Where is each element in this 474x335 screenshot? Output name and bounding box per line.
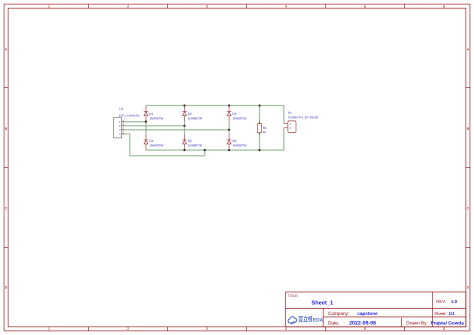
svg-text:2: 2 (127, 4, 129, 8)
diode D3 (227, 105, 231, 121)
U1 pin 2 (122, 125, 124, 127)
wire bottom rail (-) (146, 148, 284, 151)
junction bottom rail / D6 (228, 149, 230, 151)
svg-text:1k: 1k (263, 130, 266, 134)
U1 pin 3 (122, 129, 124, 131)
svg-text:4: 4 (122, 131, 124, 134)
svg-text:A: A (467, 47, 469, 51)
svg-text:Drawn By:: Drawn By: (406, 321, 428, 326)
frame zone ticks top (88, 4, 404, 8)
svg-text:D: D (5, 285, 8, 289)
svg-text:6: 6 (443, 327, 445, 331)
resistor R1 (257, 121, 261, 135)
svg-text:1N4007W: 1N4007W (232, 144, 246, 148)
svg-text:TITLE:: TITLE: (288, 294, 298, 298)
svg-text:CONN-TH_2P-P5.00: CONN-TH_2P-P5.00 (288, 116, 319, 120)
svg-text:P1: P1 (288, 111, 292, 115)
frame zone ticks left (4, 88, 8, 248)
svg-text:D4: D4 (149, 139, 153, 143)
svg-text:U1: U1 (119, 107, 123, 111)
junction top rail / D3 (228, 104, 230, 106)
frame zone ticks right (466, 88, 470, 248)
wire U1 pin3 to column3 (122, 128, 229, 131)
svg-text:1: 1 (48, 4, 50, 8)
junction col2 mid (183, 125, 185, 127)
junction bottom rail / D5 (183, 149, 185, 151)
wire U1 pin2 to column2 (122, 124, 184, 127)
svg-text:4: 4 (119, 133, 121, 136)
svg-text:2: 2 (122, 123, 124, 126)
svg-text:D2: D2 (188, 112, 192, 116)
junction top rail / D2 (183, 104, 185, 106)
svg-text:5: 5 (364, 327, 366, 331)
svg-text:Prajwal Gowda: Prajwal Gowda (431, 321, 464, 326)
svg-text:1/1: 1/1 (448, 311, 454, 316)
svg-text:B: B (5, 127, 7, 131)
title block grid lines (285, 292, 465, 327)
wire column3 mid (227, 122, 230, 134)
svg-text:6: 6 (443, 4, 445, 8)
svg-text:1N4007W: 1N4007W (188, 116, 202, 120)
svg-text:1.0: 1.0 (451, 299, 457, 304)
connector P1 (284, 121, 296, 133)
junction bottom rail / R1 (258, 149, 260, 151)
svg-text:1: 1 (290, 123, 292, 126)
diode D4 (144, 134, 148, 150)
U1 pin 4 (122, 133, 124, 135)
junction col3 mid (228, 129, 230, 131)
junction bottom rail / loop wire (204, 149, 206, 151)
svg-text:D: D (467, 285, 470, 289)
svg-text:2: 2 (119, 125, 121, 128)
svg-text:4: 4 (285, 4, 287, 8)
svg-text:2: 2 (127, 327, 129, 331)
diode D6 (227, 134, 231, 150)
svg-text:Company:: Company: (328, 311, 349, 316)
svg-text:D3: D3 (232, 112, 236, 116)
U1 pin 1 (122, 121, 124, 123)
svg-text:A: A (5, 47, 7, 51)
svg-text:1: 1 (48, 327, 50, 331)
P1 pin number marks 1 2 (290, 123, 292, 130)
connector U1 (114, 118, 125, 138)
wire U1 pin1 to column1 (122, 120, 146, 123)
svg-text:C: C (5, 206, 8, 210)
svg-text:1N4007W: 1N4007W (149, 144, 163, 148)
svg-text:1: 1 (119, 121, 121, 124)
svg-text:Date:: Date: (328, 321, 339, 326)
svg-text:3: 3 (119, 129, 121, 132)
diode D1 (144, 105, 148, 121)
P1 pin 2 (284, 127, 288, 129)
frame zone letters left/right (5, 47, 470, 289)
wire P1 pin2 drop (282, 128, 285, 150)
junction top rail / R1 (258, 104, 260, 106)
junction col1 mid (145, 121, 147, 123)
svg-text:2: 2 (290, 127, 292, 130)
svg-text:R1: R1 (263, 126, 267, 130)
svg-text:Sheet:: Sheet: (434, 311, 446, 316)
diode D2 (182, 105, 186, 121)
svg-text:1x8_connector: 1x8_connector (118, 114, 139, 118)
wire column1 mid (144, 122, 147, 134)
wire column2 mid (183, 122, 186, 134)
svg-text:1N4007W: 1N4007W (232, 116, 246, 120)
svg-text:D6: D6 (232, 139, 236, 143)
P1 pin 1 (284, 123, 288, 125)
wire R1 top (258, 105, 261, 123)
U1 pin numbers (122, 119, 124, 134)
EasyEDA logo cloud (288, 317, 297, 324)
svg-text:B: B (467, 127, 469, 131)
svg-text:1: 1 (122, 119, 124, 122)
EasyEDA logo glyphs jia-li-chuang (298, 316, 312, 322)
svg-text:D5: D5 (188, 139, 192, 143)
svg-text:5: 5 (364, 4, 366, 8)
svg-text:REV:: REV: (436, 299, 446, 304)
svg-text:4: 4 (285, 327, 287, 331)
wire R1 bottom (258, 133, 261, 150)
svg-text:2022-09-06: 2022-09-06 (349, 320, 376, 326)
wire U1 pin4 loop to bottom rail (122, 134, 205, 156)
svg-text:C: C (467, 206, 470, 210)
svg-text:Sheet_1: Sheet_1 (311, 299, 333, 305)
svg-text:3: 3 (206, 4, 208, 8)
svg-text:1N4007W: 1N4007W (149, 116, 163, 120)
wire P1 pin1 drop (282, 105, 285, 123)
frame zone ticks bottom (88, 327, 404, 331)
wire top rail (+) (146, 104, 284, 107)
junction dots (145, 104, 261, 151)
svg-text:3: 3 (122, 127, 124, 130)
svg-text:1N4007W: 1N4007W (188, 144, 202, 148)
svg-text:capstone: capstone (357, 311, 377, 316)
svg-text:3: 3 (206, 327, 208, 331)
U1 pin names (119, 121, 121, 136)
svg-text:D1: D1 (149, 112, 153, 116)
svg-text:EDA: EDA (313, 317, 323, 323)
diode D5 (182, 134, 186, 150)
